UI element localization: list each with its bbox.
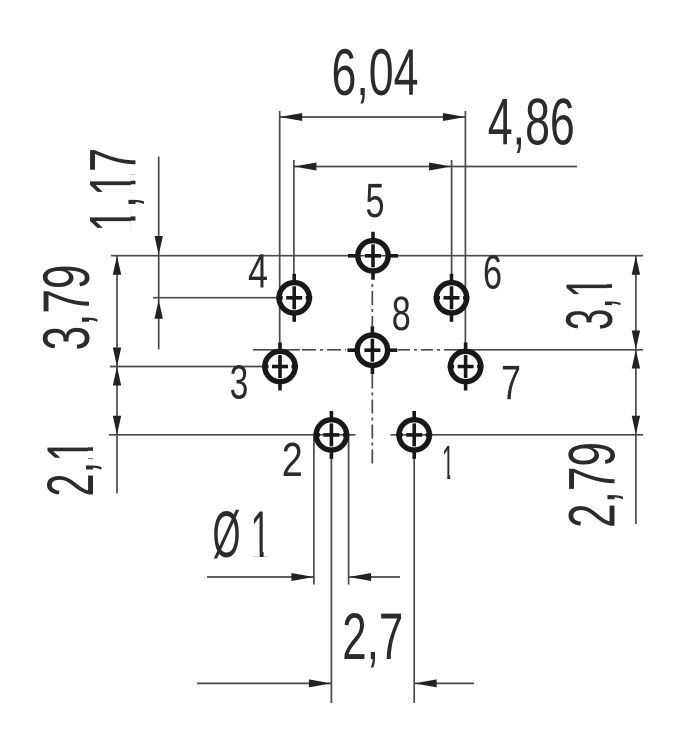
2,1 bottom arrow (down) — [113, 416, 121, 435]
pin 8 — [347, 326, 397, 374]
1,17 top arrow (down) — [155, 236, 163, 255]
4,86 left arrow — [294, 163, 317, 171]
wire: right dimension line 3,1 / 2,79 — [635, 256, 637, 524]
pin 2 — [313, 411, 349, 459]
wire: diameter 1 dimension line right segment — [349, 576, 400, 578]
2,79 top arrow (up) — [632, 350, 640, 369]
3,1 bottom arrow (down) — [632, 331, 640, 350]
wire: horizontal center line y=349.8 dash-dot middle left — [302, 349, 346, 351]
wire: horizontal reference line pin 4 level y=297.7 — [153, 297, 276, 299]
pin 1 — [396, 411, 432, 459]
white masks to slim the digit-1 feet (target font has no foot serif) — [88, 174, 613, 557]
wire: diameter 1 dimension line left segment — [207, 576, 314, 578]
svg-text:8: 8 — [392, 288, 411, 341]
svg-text:1: 1 — [442, 437, 454, 490]
wire: extension line 4,86 right — [451, 160, 453, 275]
wire: extension line pin 2 center — [330, 459, 332, 703]
wire: dimension line 2,7 right segment — [414, 682, 474, 684]
svg-text:5: 5 — [366, 175, 385, 228]
wire: horizontal center line y=349.8 dash-dot middle right — [398, 349, 445, 351]
pin 5 — [348, 232, 398, 280]
wire: extension line pin2 hole left tangent — [313, 436, 315, 585]
wire: extension line pin 1 center — [413, 459, 415, 703]
2,79 bottom arrow (down) — [632, 416, 640, 435]
4,86 right arrow — [429, 163, 452, 171]
wire: dimension line 4,86 with tail — [294, 166, 577, 168]
svg-text:7: 7 — [501, 357, 521, 410]
2,7 left arrow (points right) — [309, 679, 332, 687]
svg-text:2,79: 2,79 — [555, 442, 629, 528]
wire: horizontal reference line pins 2/1 level right segment — [391, 434, 644, 436]
wire: horizontal center line y=349.8 solid right part — [445, 349, 643, 351]
3,79 bottom arrow (down) — [113, 348, 121, 367]
6,04 right arrow — [443, 113, 466, 121]
wire: horizontal reference line pin 3 level y=366.5 left — [110, 366, 262, 368]
svg-text:2,7: 2,7 — [342, 599, 403, 673]
wire: vertical center line x=372.3 dash-dot upper segment — [371, 284, 373, 326]
wire: dimension line 6,04 — [280, 116, 466, 118]
svg-text:1,17: 1,17 — [76, 148, 150, 232]
wire: extension line 6,04 left — [279, 111, 281, 343]
wire: horizontal reference line through pin 5 level y=255.7 — [111, 255, 643, 257]
wire: extension line pin2 hole right tangent — [348, 436, 350, 585]
wire: extension line 4,86 left — [293, 160, 295, 275]
6,04 left arrow — [280, 113, 303, 121]
diameter1 left arrow (points right) — [291, 573, 314, 581]
wire: horizontal reference line pins 2/1 level left segment — [109, 434, 356, 436]
diameter1 right arrow (points left) — [349, 573, 372, 581]
svg-text:2: 2 — [282, 434, 303, 487]
pin 3 — [262, 343, 298, 391]
2,1 top arrow (up) — [113, 367, 121, 386]
pin 4 — [276, 274, 312, 322]
pin 6 — [434, 274, 470, 322]
svg-text:6,04: 6,04 — [332, 35, 419, 109]
1,17 bottom arrow (up) — [155, 300, 163, 319]
wire: dimension line 2,7 left segment — [197, 682, 331, 684]
svg-text:4: 4 — [248, 246, 268, 299]
svg-text:3,79: 3,79 — [29, 265, 103, 351]
3,1 top arrow (up) — [632, 256, 640, 275]
wire: dimension line 1,17 — [158, 157, 160, 350]
svg-text:4,86: 4,86 — [488, 85, 575, 159]
2,7 right arrow (points left) — [414, 679, 437, 687]
pin 7 — [448, 343, 484, 391]
wire: horizontal center line y=349.8 solid left part — [253, 349, 300, 351]
wire: extension line 6,04 right — [464, 111, 466, 343]
wire: left dimension line 3,79 / 2,1 — [116, 256, 118, 494]
svg-text:3: 3 — [230, 357, 249, 410]
pins: ring + center-mark cross — [262, 232, 484, 459]
svg-text:3,1: 3,1 — [552, 276, 626, 330]
svg-text:Ø 1: Ø 1 — [213, 497, 271, 571]
arrowheads — [113, 113, 640, 687]
3,79 top arrow (up) — [113, 256, 121, 275]
wire: vertical center line x=372.3 dash-dot lower segment — [371, 375, 373, 467]
svg-text:2,1: 2,1 — [33, 439, 107, 497]
svg-text:6: 6 — [483, 247, 502, 300]
